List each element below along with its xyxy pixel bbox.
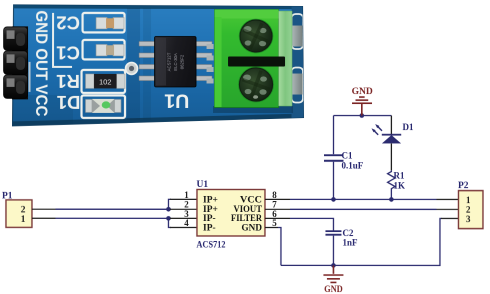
pcb top edge <box>14 5 303 9</box>
svg-text:D1: D1 <box>403 122 415 132</box>
wire pin7 VIOUT <box>290 208 436 210</box>
led arrows <box>378 127 382 131</box>
svg-text:1: 1 <box>21 215 26 225</box>
bus tie pins 1-2 <box>168 199 171 209</box>
svg-text:0625F2: 0625F2 <box>180 54 185 69</box>
capacitor C2 smd part <box>96 17 124 29</box>
connector P1 <box>6 200 32 228</box>
junction dot pin2 <box>166 207 171 212</box>
svg-text:U1: U1 <box>196 180 208 190</box>
terminal metal clips <box>293 26 303 47</box>
U1 left pin stubs <box>170 199 197 227</box>
svg-text:ELC-30A: ELC-30A <box>173 53 178 71</box>
pcb bottom edge <box>13 113 304 126</box>
chip U1 leads right <box>196 41 212 80</box>
pcb board <box>13 5 304 126</box>
U1 box <box>197 189 265 236</box>
terminal block green body <box>215 9 279 107</box>
capacitor C1 smd part <box>96 44 124 56</box>
via hole <box>126 62 138 74</box>
U1 right pin stubs <box>265 199 290 227</box>
svg-text:IP-: IP- <box>203 223 216 233</box>
svg-text:0.1uF: 0.1uF <box>341 161 363 171</box>
svg-text:U1: U1 <box>164 90 189 112</box>
svg-text:GND: GND <box>324 285 343 294</box>
led D1 <box>371 116 401 171</box>
silkscreen divider line <box>52 13 54 68</box>
label D1 <box>57 92 81 113</box>
chip U1 leads left <box>139 41 155 80</box>
svg-text:R1: R1 <box>393 171 405 181</box>
silkscreen U1 (rotated 180) <box>164 90 189 112</box>
U1 left pin names <box>203 195 218 233</box>
shadow under terminal block <box>213 106 293 113</box>
svg-text:1nF: 1nF <box>342 238 358 248</box>
P2 pin numbers <box>466 195 471 224</box>
top rail <box>334 115 392 117</box>
svg-text:5: 5 <box>272 218 277 228</box>
label C2 (silkscreen, rotated 180) <box>56 13 80 34</box>
junction dot C2 gnd <box>331 263 336 268</box>
junction dot pin3 <box>166 216 171 221</box>
svg-text:GND OUT VCC: GND OUT VCC <box>32 10 50 116</box>
ground symbol top <box>352 97 372 116</box>
chip marking text <box>167 52 185 71</box>
svg-text:GND: GND <box>352 87 373 97</box>
svg-text:ACS712T: ACS712T <box>167 52 172 71</box>
junction dot C1 rail <box>331 197 336 202</box>
junction dot R1 rail <box>389 197 394 202</box>
svg-text:D1: D1 <box>57 92 81 113</box>
ground symbol bottom <box>323 265 343 282</box>
bottom ground rail <box>281 218 442 265</box>
U1 right pin numbers <box>272 190 277 228</box>
header black 3pin <box>4 26 31 99</box>
svg-text:1K: 1K <box>393 181 405 191</box>
U1 left pin numbers <box>184 190 189 228</box>
pcb shading streaks <box>13 8 151 126</box>
capacitor C1 smd outline <box>83 40 125 60</box>
svg-text:C1: C1 <box>56 43 80 64</box>
svg-text:P2: P2 <box>458 181 469 191</box>
svg-text:3: 3 <box>466 214 471 224</box>
svg-text:C2: C2 <box>342 228 354 238</box>
pcb right strip <box>292 6 305 118</box>
chip U1 body SOIC-8 <box>155 36 197 87</box>
silkscreen brackets right edge <box>292 14 304 103</box>
svg-text:1: 1 <box>466 195 471 205</box>
terminal slot <box>228 56 285 66</box>
P2 pin stubs <box>436 200 458 219</box>
resistor R1 <box>388 170 396 199</box>
P1 pin stubs <box>32 209 56 218</box>
label R1 <box>56 71 80 92</box>
terminal screw 2 <box>238 66 274 102</box>
svg-text:ACS712: ACS712 <box>196 239 225 249</box>
led D1 smd part <box>86 99 122 113</box>
wire P1 to bus <box>55 209 168 218</box>
svg-text:P1: P1 <box>2 191 13 201</box>
U1 right pin names <box>231 195 263 233</box>
bus tie pins 3-4 <box>168 218 171 227</box>
terminal screw 1 <box>239 19 274 54</box>
svg-text:C2: C2 <box>56 13 80 34</box>
label C1 <box>56 43 80 64</box>
svg-text:4: 4 <box>184 218 189 228</box>
P2 box <box>458 191 483 229</box>
svg-text:102: 102 <box>99 77 112 86</box>
terminal solder pads <box>207 44 214 84</box>
terminal block flange <box>279 11 293 106</box>
svg-text:GND: GND <box>241 223 262 233</box>
wire pin8 VCC rail <box>290 198 436 200</box>
resistor R1 smd outline <box>82 70 126 93</box>
capacitor C1 <box>324 116 344 200</box>
svg-text:C1: C1 <box>341 151 353 161</box>
resistor R1 smd part 102 <box>86 74 126 89</box>
svg-text:2: 2 <box>21 205 26 215</box>
svg-text:R1: R1 <box>56 71 80 92</box>
capacitor C2 <box>325 230 341 265</box>
svg-text:1: 1 <box>184 190 189 200</box>
wire pin6 FILTER to C2 <box>290 218 334 230</box>
capacitor C2 smd outline <box>83 13 125 33</box>
wire pin5 GND down <box>278 228 281 266</box>
led D1 smd outline <box>82 95 126 118</box>
svg-text:8: 8 <box>272 190 277 200</box>
silkscreen GND OUT VCC <box>32 10 50 116</box>
junction dot top gnd <box>360 113 365 118</box>
